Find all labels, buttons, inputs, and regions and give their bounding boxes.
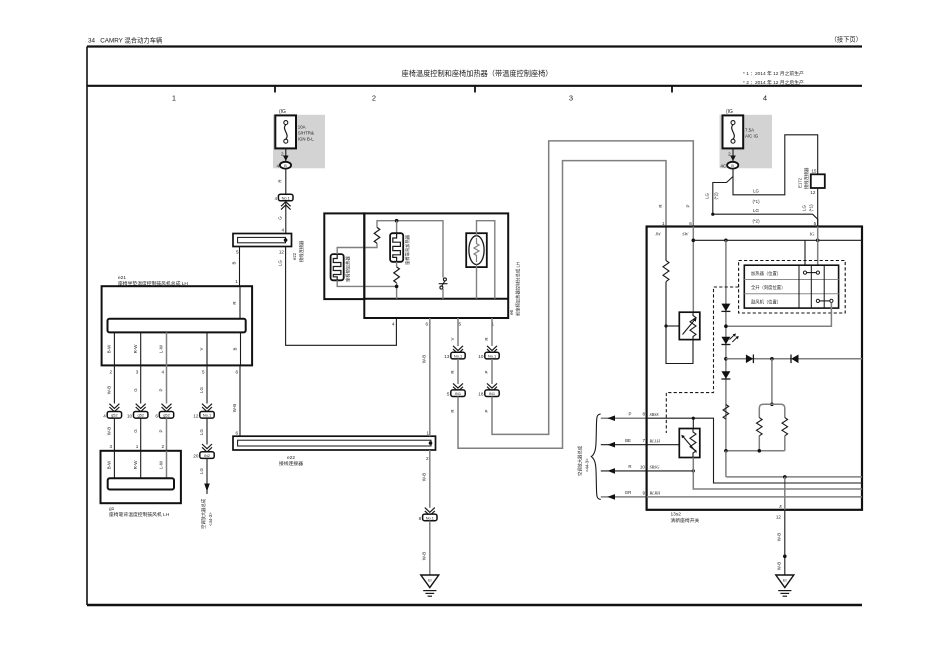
svg-text:4: 4 (763, 94, 767, 103)
ground EI right (776, 575, 794, 588)
resistor in heater box (374, 227, 380, 243)
svg-text:R: R (278, 179, 283, 182)
svg-text:3: 3 (136, 370, 139, 375)
ground EI left (421, 575, 439, 588)
connector oval 4B (280, 162, 291, 169)
svg-text:BLLH: BLLH (650, 438, 661, 443)
svg-text:e22: e22 (292, 252, 297, 260)
fuse IG shaded background (left) (273, 115, 325, 169)
seat switch 13s2 box (647, 227, 862, 510)
svg-text:G: G (133, 429, 138, 433)
blower contact output to LED rail (726, 303, 832, 327)
svg-text:B-W: B-W (107, 460, 112, 469)
wire P chain down right and up to big box pin6 (492, 141, 693, 435)
svg-text:12: 12 (193, 413, 199, 418)
svg-text:W-B: W-B (777, 562, 782, 571)
svg-text:5: 5 (458, 322, 461, 327)
SBSG wire pin10 (647, 470, 694, 472)
svg-text:LG: LG (753, 189, 759, 194)
svg-text:18: 18 (478, 392, 484, 397)
svg-text:4: 4 (274, 196, 277, 201)
indicator rail (693, 239, 862, 241)
svg-text:4: 4 (103, 413, 106, 418)
svg-text:LG: LG (802, 204, 807, 210)
svg-text:接线连接器: 接线连接器 (803, 167, 810, 189)
svg-text:LG: LG (705, 192, 710, 198)
svg-text:空调放大器总成: 空调放大器总成 (577, 445, 584, 476)
wire R down (285, 169, 287, 195)
svg-text:SBSG: SBSG (650, 465, 661, 470)
svg-text:B-W: B-W (107, 344, 112, 353)
e21 box (102, 286, 253, 365)
node at back heater top (395, 219, 399, 223)
svg-text:B: B (284, 164, 287, 168)
svg-text:e22: e22 (287, 455, 295, 461)
svg-text:（接下页）: （接下页） (831, 35, 862, 44)
svg-text:V: V (199, 347, 204, 350)
switch position table dashed frame (739, 261, 846, 314)
svg-text:IN1: IN1 (455, 391, 461, 396)
wire B from bar pin5 to e21 pin1 (239, 247, 241, 287)
thermostat (443, 278, 446, 281)
row1 P to pin8 SBSS (601, 417, 647, 419)
svg-text:S/HTR&: S/HTR& (298, 131, 314, 136)
IG wire into table (817, 227, 819, 266)
resistor below diodes (723, 405, 729, 420)
column ticks (274, 86, 276, 93)
svg-text:10A: 10A (298, 125, 306, 130)
resistor RR (782, 418, 788, 436)
svg-text:座椅靠背加热器: 座椅靠背加热器 (404, 234, 411, 265)
horizontal diode rail y358.8 (726, 358, 862, 360)
fuse A/C IG shaded background (right) (720, 115, 773, 169)
LED diode chain (725, 240, 727, 450)
svg-text:B: B (233, 347, 238, 350)
svg-text:* 2 ：2014 年 12 月之后生产: * 2 ：2014 年 12 月之后生产 (743, 79, 804, 86)
svg-text:13: 13 (444, 354, 450, 359)
svg-text:全开（刻度位置）: 全开（刻度位置） (751, 284, 785, 291)
rheostat R2 (lower) (679, 429, 700, 458)
lamp top loop to pin1 (477, 221, 495, 299)
table contacts row1 (803, 271, 806, 274)
svg-text:W-B: W-B (422, 552, 427, 561)
svg-text:R: R (450, 370, 455, 373)
junction connector e22 upper bar (233, 234, 292, 247)
svg-text:No.1: No.1 (454, 354, 462, 359)
wire W-B heater pin6 to lower bar (429, 318, 431, 436)
svg-text:EI: EI (783, 578, 787, 583)
wire W-B e21 pin6 to lower junction bar (239, 365, 241, 436)
resistor RL (757, 418, 763, 436)
svg-text:GR: GR (625, 490, 632, 495)
svg-text:9: 9 (642, 490, 645, 495)
svg-text:10: 10 (127, 413, 133, 418)
svg-text:IG: IG (809, 231, 815, 236)
svg-text:2: 2 (372, 94, 376, 103)
wire P e21 pin4 to connector (166, 365, 168, 403)
svg-text:20: 20 (193, 454, 199, 459)
svg-text:34 CAMRY 混合动力车辆: 34 CAMRY 混合动力车辆 (88, 36, 162, 45)
svg-text:L-W: L-W (159, 460, 164, 469)
indicator lamp (466, 233, 487, 267)
wire fuse to connector oval (285, 148, 287, 161)
connector strip line in box (364, 298, 508, 300)
svg-text:(IG: (IG (726, 109, 733, 115)
svg-text:V: V (450, 337, 455, 340)
wire W-B e21 pin2 to connector (113, 365, 115, 403)
svg-text:4C: 4C (720, 163, 727, 168)
E ground wire inside box (784, 477, 786, 510)
svg-text:6: 6 (235, 431, 238, 436)
svg-text:L-W: L-W (159, 344, 164, 353)
e21 internal wires below bar (113, 332, 115, 365)
svg-text:EI: EI (428, 578, 432, 583)
rheostat R1 (upper) (679, 312, 700, 339)
svg-text:P: P (159, 429, 164, 432)
svg-text:13s2: 13s2 (671, 512, 682, 518)
svg-text:W-B: W-B (422, 473, 427, 482)
svg-text:5: 5 (447, 392, 450, 397)
diode D1 (721, 304, 730, 312)
back heater element (396, 221, 398, 234)
svg-text:1: 1 (235, 279, 238, 284)
parallel resistors feed (771, 359, 773, 405)
svg-text:E: E (778, 504, 782, 509)
svg-text:(IG: (IG (279, 109, 286, 115)
diode D3 (721, 371, 730, 379)
svg-text:W-B: W-B (107, 427, 112, 436)
svg-text:6: 6 (425, 322, 428, 327)
wire R chain down right and up to big box pin1 (458, 161, 666, 449)
svg-text:BLRH: BLRH (650, 491, 662, 496)
svg-text:4: 4 (281, 228, 284, 233)
svg-text:12: 12 (279, 250, 285, 255)
svg-text:接线连接器: 接线连接器 (298, 240, 305, 262)
wire G down to junction bar (285, 201, 287, 233)
svg-text:No.1: No.1 (282, 195, 290, 200)
svg-text:E172: E172 (798, 177, 803, 188)
chevrons below box pointing up (281, 202, 291, 210)
cushion heater top wire to resistor (337, 243, 377, 254)
svg-text:LG: LG (753, 208, 759, 213)
svg-text:1: 1 (426, 431, 429, 436)
junction connector E172 (811, 174, 825, 188)
svg-text:接线连接器: 接线连接器 (279, 460, 303, 467)
wire LG from bar pin12 down and right to heater pin4 (286, 247, 397, 346)
svg-text:空调放大器总成: 空调放大器总成 (200, 498, 207, 529)
svg-text:6: 6 (155, 413, 158, 418)
svg-text:R-W: R-W (133, 460, 138, 470)
wire R heater pin1 chain (491, 318, 493, 346)
svg-text:* 1 ：2014 年 12 月之前生产: * 1 ：2014 年 12 月之前生产 (743, 70, 804, 77)
svg-text:12: 12 (810, 190, 816, 195)
svg-text:(*2): (*2) (713, 192, 718, 200)
wire W-B switch pin12 to ground (784, 510, 786, 575)
svg-text:座椅垫加热器: 座椅垫加热器 (345, 256, 352, 282)
svg-text:R: R (232, 301, 237, 304)
seat heater control assy e6: left cushion box (324, 213, 364, 299)
fuse F2 7.5A A/C IG box (723, 115, 744, 148)
svg-text:g52: g52 (111, 413, 118, 418)
g1 box seat back temp control blower (101, 451, 181, 503)
svg-text:LG: LG (278, 259, 283, 265)
svg-text:P: P (484, 409, 489, 412)
svg-text:5: 5 (236, 250, 239, 255)
svg-text:R: R (450, 409, 455, 412)
svg-text:e21: e21 (118, 275, 126, 281)
svg-text:LG: LG (199, 428, 204, 434)
svg-text:3: 3 (109, 444, 112, 449)
svg-text:5: 5 (814, 221, 817, 226)
page border frame (87, 45, 862, 47)
diode D4 right-pointing (746, 355, 753, 364)
svg-text:R: R (484, 337, 489, 340)
svg-text:W-B: W-B (422, 355, 427, 364)
svg-text:8: 8 (642, 412, 645, 417)
arrow into oval (283, 156, 289, 162)
svg-text:IGN B-L: IGN B-L (298, 137, 314, 142)
svg-text:8: 8 (419, 516, 422, 521)
svg-text:前座椅加热器控制分总成 LH: 前座椅加热器控制分总成 LH (515, 262, 522, 316)
svg-text:W-B: W-B (107, 386, 112, 395)
wire W-B lower bar pin2 to ground (429, 450, 431, 508)
svg-text:P: P (484, 370, 489, 373)
inline connector row: chevrons and boxes (103, 404, 121, 419)
svg-text:R: R (628, 464, 631, 469)
e21 pin1 wire R (239, 286, 241, 319)
wire G e21 pin3 to connector (140, 365, 142, 403)
SBSS wire pin8 (647, 418, 862, 483)
wires below connectors to g1 (113, 418, 115, 451)
svg-text:G: G (133, 388, 138, 392)
svg-text:12: 12 (776, 515, 782, 520)
svg-text:LG: LG (199, 386, 204, 392)
svg-text:1: 1 (136, 444, 139, 449)
svg-text:7.5A: 7.5A (745, 128, 754, 133)
svg-text:g1: g1 (109, 506, 115, 512)
svg-text:W-B: W-B (232, 404, 237, 413)
row4 GR to pin9 BLRH (601, 496, 647, 498)
diode D5 left-pointing (791, 355, 798, 364)
svg-text:<44-3>: <44-3> (585, 458, 590, 472)
svg-text:No.1: No.1 (488, 354, 496, 359)
LG wire with arrow to AC amp (206, 458, 208, 494)
svg-text:P: P (159, 388, 164, 391)
back heater lower resistor (396, 262, 398, 267)
svg-text:座椅温度控制和座椅加热器（带温度控制座椅）: 座椅温度控制和座椅加热器（带温度控制座椅） (402, 69, 553, 78)
svg-text:g52: g52 (137, 413, 144, 418)
LED D2 (721, 337, 730, 345)
seat heater right box (364, 213, 508, 318)
svg-text:W-B: W-B (777, 533, 782, 542)
svg-text:SBSS: SBSS (650, 412, 660, 417)
wire LG e21 pin5 to connector (206, 365, 208, 403)
svg-text:4: 4 (276, 163, 279, 168)
row3 R to pin10 SBSG (601, 470, 647, 472)
wire (*1) branch: down right up right to E172 (733, 135, 818, 195)
svg-text:g52: g52 (163, 413, 170, 418)
svg-text:10: 10 (640, 464, 646, 469)
svg-text:3: 3 (569, 94, 573, 103)
svg-text:7: 7 (642, 438, 645, 443)
brace (591, 414, 600, 499)
svg-text:BE: BE (625, 438, 631, 443)
svg-text:G: G (278, 216, 283, 220)
inline connector No.1 (4) (278, 194, 293, 201)
BLRH wire pin9 (647, 496, 862, 498)
wire (*2) branch: down diagonal left and down (713, 169, 818, 227)
cushion heater bottom wire (337, 280, 396, 286)
svg-text:P: P (629, 411, 632, 416)
svg-text:No.1: No.1 (426, 515, 434, 520)
wire V heater pin5 chain (457, 318, 459, 346)
wire IW pin1 with resistor (665, 227, 667, 261)
svg-text:P: P (686, 204, 691, 207)
svg-text:B: B (232, 261, 237, 264)
svg-text:B: B (731, 164, 734, 168)
svg-text:座椅靠背温度控制鼓风机 LH: 座椅靠背温度控制鼓风机 LH (109, 511, 170, 518)
mechanical linkage dashed (666, 287, 738, 433)
switch position table (744, 265, 838, 308)
row2 BE to pin7 BLLH (601, 444, 647, 446)
svg-text:(*2): (*2) (752, 219, 760, 224)
svg-text:15: 15 (811, 168, 817, 173)
connector oval 4C (727, 162, 738, 169)
svg-text:IN1: IN1 (489, 391, 495, 396)
svg-text:4: 4 (392, 322, 395, 327)
svg-text:鼓风机（位置）: 鼓风机（位置） (751, 298, 781, 305)
svg-text:A/C IG: A/C IG (745, 134, 759, 139)
svg-text:2: 2 (162, 444, 165, 449)
svg-text:清新座椅开关: 清新座椅开关 (671, 517, 700, 524)
cushion heater element (331, 254, 344, 280)
svg-text:4: 4 (162, 370, 165, 375)
svg-text:加热器（位置）: 加热器（位置） (751, 270, 781, 277)
table contacts row3 (816, 299, 819, 302)
svg-text:5: 5 (202, 370, 205, 375)
svg-text:R: R (658, 204, 663, 207)
svg-text:R-W: R-W (133, 344, 138, 354)
svg-text:<44-3>: <44-3> (208, 512, 213, 526)
svg-text:LG: LG (199, 467, 204, 473)
node on bar (284, 238, 288, 242)
internal top rail (377, 221, 443, 278)
svg-text:(*1): (*1) (809, 204, 814, 212)
lamp bottom to strip (476, 265, 478, 299)
BLLH wire pin7 to wiper (647, 444, 680, 446)
junction connector e22 lower bar (233, 436, 436, 450)
g1 connector bar (108, 478, 174, 489)
wire LG (*1) from E172 down to pin5 (817, 188, 819, 227)
LG wire to second inline connector (206, 418, 208, 444)
fuse F1 10A S/HTR box (275, 115, 296, 148)
svg-text:2: 2 (426, 456, 429, 461)
e21 connector bar (108, 319, 246, 333)
wire SW pin6 (692, 227, 694, 313)
svg-text:6: 6 (236, 370, 239, 375)
svg-text:e6: e6 (509, 309, 514, 315)
svg-text:No.1: No.1 (203, 413, 211, 418)
bottom joining rails (726, 450, 785, 452)
svg-text:IN2: IN2 (204, 453, 210, 458)
svg-text:2: 2 (109, 370, 112, 375)
svg-text:10: 10 (478, 354, 484, 359)
svg-text:6: 6 (689, 221, 692, 226)
svg-text:(*1): (*1) (752, 199, 760, 204)
svg-text:1: 1 (172, 94, 176, 103)
svg-text:1: 1 (662, 221, 665, 226)
